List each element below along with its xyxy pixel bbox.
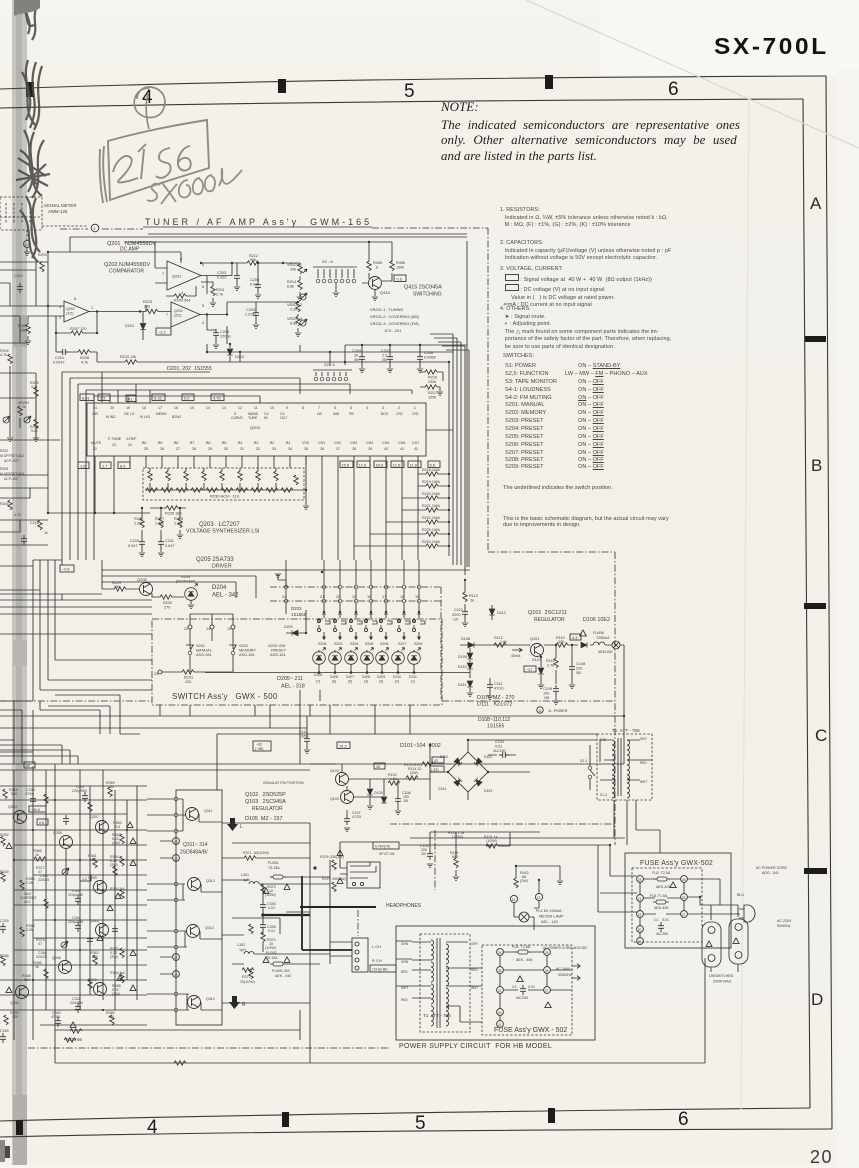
svg-text:22: 22 bbox=[638, 913, 642, 917]
fuse F240K bbox=[593, 642, 605, 645]
svg-text:2200: 2200 bbox=[452, 613, 460, 617]
adjusting point 1 bbox=[300, 293, 307, 300]
C203 bbox=[234, 272, 240, 282]
voltage box 0.6 bbox=[394, 275, 406, 282]
svg-text:220/500: 220/500 bbox=[70, 1001, 83, 1005]
svg-text:S1-2: S1-2 bbox=[600, 793, 607, 797]
Q303 bbox=[14, 811, 27, 824]
svg-text:−62: −62 bbox=[256, 743, 262, 747]
Q101 transistor bbox=[531, 644, 544, 657]
svg-text:28: 28 bbox=[498, 969, 502, 973]
svg-text:R227: R227 bbox=[155, 517, 164, 521]
svg-text:1.7: 1.7 bbox=[102, 464, 107, 469]
IC bottom pin names bbox=[91, 437, 419, 451]
network series chain bbox=[145, 489, 298, 491]
svg-text:AC POWER CORD: AC POWER CORD bbox=[756, 866, 788, 870]
svg-text:4.7k: 4.7k bbox=[14, 513, 21, 517]
svg-text:C109: C109 bbox=[543, 687, 552, 691]
svg-text:B1: B1 bbox=[286, 441, 290, 445]
S2-5 contacts bbox=[314, 377, 318, 381]
svg-text:2.2M: 2.2M bbox=[174, 522, 182, 526]
svg-text:220/25: 220/25 bbox=[38, 878, 49, 882]
svg-text:6.8k: 6.8k bbox=[290, 322, 297, 326]
svg-text:CH6: CH6 bbox=[398, 441, 405, 445]
svg-text:(1): (1) bbox=[411, 680, 415, 684]
svg-text:D110: D110 bbox=[458, 665, 467, 669]
svg-text:C216: C216 bbox=[30, 521, 39, 525]
C210 bbox=[139, 538, 145, 548]
svg-text:RED: RED bbox=[401, 970, 408, 974]
svg-text:!: ! bbox=[584, 632, 585, 636]
svg-text:(2W): (2W) bbox=[410, 771, 418, 775]
R112 bbox=[494, 643, 506, 647]
svg-text:R113: R113 bbox=[469, 594, 478, 598]
preset switch labels bbox=[318, 642, 422, 646]
grid letters right bbox=[810, 194, 821, 214]
Q305 bbox=[60, 836, 73, 849]
Q205 transistor bbox=[140, 583, 153, 596]
NOTE heading bbox=[441, 99, 479, 115]
svg-text:36: 36 bbox=[320, 447, 324, 451]
C110 bbox=[462, 608, 468, 618]
svg-text:47/10: 47/10 bbox=[494, 687, 504, 691]
outlet wires bbox=[687, 897, 738, 972]
svg-text:24: 24 bbox=[93, 406, 97, 410]
svg-text:32: 32 bbox=[256, 447, 260, 451]
svg-text:13: 13 bbox=[222, 406, 226, 410]
C101 bbox=[499, 752, 509, 758]
VR201-3 bbox=[296, 316, 300, 326]
svg-text:C205: C205 bbox=[220, 330, 229, 334]
right fuse assy box bbox=[625, 853, 731, 948]
circled pin 17 bbox=[173, 954, 180, 961]
svg-text:B9: B9 bbox=[158, 441, 162, 445]
svg-text:Q304: Q304 bbox=[10, 1001, 19, 1005]
D108 bbox=[468, 642, 474, 648]
svg-text:AEL - 342: AEL - 342 bbox=[212, 593, 239, 599]
svg-text:R375: R375 bbox=[322, 877, 331, 881]
svg-text:S202: S202 bbox=[239, 644, 248, 648]
grounds regulator bbox=[553, 701, 559, 704]
svg-text:0.0047: 0.0047 bbox=[53, 361, 65, 365]
more amp components bbox=[44, 794, 48, 804]
svg-text:2: 2 bbox=[398, 406, 400, 410]
paper fold vertical bbox=[741, 95, 749, 1110]
svg-text:R111: R111 bbox=[546, 659, 555, 663]
svg-text:27: 27 bbox=[176, 447, 180, 451]
svg-text:B8: B8 bbox=[174, 441, 178, 445]
svg-text:CURVE: CURVE bbox=[231, 416, 244, 420]
svg-text:220μ/500: 220μ/500 bbox=[68, 893, 83, 897]
svg-text:5.6k: 5.6k bbox=[31, 429, 38, 433]
voltage box 14.3 bbox=[337, 742, 350, 749]
R235 bbox=[166, 506, 178, 510]
svg-text:220k: 220k bbox=[428, 380, 436, 384]
svg-text:SP AT 1W: SP AT 1W bbox=[379, 852, 395, 856]
svg-text:90k: 90k bbox=[250, 258, 256, 262]
svg-text:1.5M: 1.5M bbox=[155, 522, 163, 526]
outer box bbox=[396, 926, 595, 1040]
pencil circle around grid 4 bbox=[134, 87, 165, 129]
svg-text:D201: D201 bbox=[125, 324, 134, 328]
svg-text:28: 28 bbox=[192, 447, 196, 451]
svg-text:0.76V(79): 0.76V(79) bbox=[375, 845, 390, 849]
svg-text:MW: MW bbox=[333, 412, 340, 416]
svg-text:35: 35 bbox=[304, 447, 308, 451]
svg-text:21: 21 bbox=[638, 897, 642, 901]
svg-text:1k: 1k bbox=[22, 405, 26, 409]
svg-text:REGULATOR: REGULATOR bbox=[252, 806, 283, 812]
regulator wires bbox=[310, 764, 430, 815]
svg-text:0.01: 0.01 bbox=[528, 985, 535, 989]
svg-text:15.8: 15.8 bbox=[342, 463, 350, 468]
svg-text:JCX - 201: JCX - 201 bbox=[384, 328, 401, 333]
svg-text:20: 20 bbox=[110, 406, 114, 410]
svg-text:PRESET: PRESET bbox=[271, 649, 287, 653]
LED D210 bbox=[392, 648, 405, 665]
svg-text:S1-1: S1-1 bbox=[580, 759, 588, 763]
node 22 bbox=[188, 625, 192, 629]
D109b bbox=[381, 797, 387, 803]
wire to comparator bbox=[201, 263, 246, 276]
C211 bbox=[158, 538, 164, 548]
C207 bbox=[387, 353, 393, 363]
svg-text:CH2: CH2 bbox=[334, 441, 341, 445]
wires around Q201 bbox=[155, 242, 232, 294]
voltage box -33 bbox=[430, 766, 444, 772]
svg-text:1k: 1k bbox=[44, 531, 48, 535]
LED D206 bbox=[329, 648, 342, 665]
svg-text:Q307: Q307 bbox=[90, 815, 99, 819]
svg-text:B3: B3 bbox=[254, 441, 258, 445]
svg-text:VOLTAGE SYNTHESIZER LSI: VOLTAGE SYNTHESIZER LSI bbox=[186, 529, 260, 535]
svg-text:FU301,302: FU301,302 bbox=[272, 969, 290, 973]
svg-text:(2): (2) bbox=[395, 680, 399, 684]
svg-text:0.0: 0.0 bbox=[184, 396, 190, 401]
C208 bbox=[417, 353, 423, 363]
svg-text:D105: D105 bbox=[374, 791, 383, 795]
frame inner right bbox=[803, 99, 810, 1108]
svg-text:R235 180: R235 180 bbox=[165, 512, 181, 516]
resistor network dashed box bbox=[143, 468, 304, 500]
voltage box -27 bbox=[524, 666, 536, 672]
VR201-2 bbox=[296, 302, 300, 312]
svg-text:MEMORY: MEMORY bbox=[239, 649, 256, 653]
bus node circles row2 bbox=[284, 599, 421, 603]
svg-text:C108: C108 bbox=[576, 662, 585, 666]
svg-text:PB: PB bbox=[349, 412, 354, 416]
svg-text:S204: S204 bbox=[350, 642, 358, 646]
C111 bbox=[487, 681, 493, 691]
svg-text:1: 1 bbox=[414, 406, 416, 410]
node 10 bbox=[24, 241, 31, 248]
svg-text:D108~110,112: D108~110,112 bbox=[478, 717, 510, 723]
HB wires bbox=[500, 952, 572, 1021]
D111 bbox=[467, 681, 473, 687]
svg-text:FU2 T2.5A: FU2 T2.5A bbox=[652, 871, 671, 875]
svg-text:R205: R205 bbox=[0, 467, 8, 471]
meter lamp PL1 bbox=[519, 912, 529, 922]
AC arrows HB bbox=[572, 964, 580, 981]
svg-text:41: 41 bbox=[128, 397, 132, 402]
long rails mid page bbox=[0, 700, 615, 702]
SP box bbox=[373, 842, 399, 849]
voltage box 8.6 bbox=[118, 462, 130, 469]
svg-text:50/60Hz: 50/60Hz bbox=[558, 973, 572, 977]
svg-text:(POINTER): (POINTER) bbox=[176, 580, 196, 584]
voltage box 42 bbox=[432, 757, 444, 763]
svg-text:8.18: 8.18 bbox=[154, 396, 162, 401]
ground top bbox=[278, 574, 286, 587]
svg-text:5: 5 bbox=[202, 263, 204, 267]
svg-text:SWITCHING: SWITCHING bbox=[413, 292, 442, 298]
svg-text:Q314: Q314 bbox=[205, 926, 214, 930]
signal arrow L bbox=[227, 818, 238, 831]
svg-text:10: 10 bbox=[25, 243, 29, 247]
svg-text:(5): (5) bbox=[348, 680, 352, 684]
svg-text:GRY: GRY bbox=[640, 737, 648, 741]
transformer connect wires bbox=[412, 942, 482, 1022]
verticals right of IC bbox=[426, 334, 469, 575]
svg-text:R228: R228 bbox=[174, 517, 183, 521]
svg-text:25: 25 bbox=[545, 951, 549, 955]
svg-text:CH4: CH4 bbox=[366, 441, 373, 445]
tick bottom left bbox=[16, 1120, 23, 1135]
svg-text:R376: R376 bbox=[320, 855, 329, 859]
inner dashed box right bbox=[632, 868, 702, 942]
svg-text:13.8: 13.8 bbox=[393, 463, 401, 468]
svg-text:L302: L302 bbox=[237, 943, 245, 947]
svg-text:22k: 22k bbox=[144, 305, 150, 309]
svg-text:5.5: 5.5 bbox=[100, 396, 105, 401]
svg-text:AEK - 405: AEK - 405 bbox=[516, 958, 532, 962]
LED D211 bbox=[408, 648, 421, 665]
svg-text:4: 4 bbox=[366, 406, 368, 410]
svg-text:AWM-126: AWM-126 bbox=[48, 209, 68, 214]
svg-text:R244: R244 bbox=[0, 502, 9, 506]
S2-6 contacts bbox=[316, 279, 320, 283]
D204 LED pointer bbox=[185, 584, 198, 601]
svg-text:M OFFSET ADJ: M OFFSET ADJ bbox=[0, 454, 25, 458]
secondary coils bbox=[446, 944, 449, 964]
svg-text:1CH(2.8k): 1CH(2.8k) bbox=[372, 968, 387, 972]
svg-text:R220 100k: R220 100k bbox=[422, 492, 440, 496]
voltage box -62 bbox=[253, 741, 271, 751]
svg-text:18: 18 bbox=[174, 973, 178, 977]
adjusting point left 2 bbox=[24, 416, 31, 423]
svg-text:15: 15 bbox=[190, 406, 194, 410]
svg-text:WHT: WHT bbox=[471, 986, 478, 990]
svg-text:D111 KZL072: D111 KZL072 bbox=[477, 702, 512, 708]
amp to headphone wires bbox=[222, 823, 330, 1003]
svg-text:18.8: 18.8 bbox=[376, 463, 384, 468]
svg-text:DC AMP: DC AMP bbox=[120, 247, 140, 253]
S202 switch bbox=[229, 641, 237, 651]
svg-text:0.0068: 0.0068 bbox=[424, 356, 436, 360]
svg-text:R230 ACN - 119: R230 ACN - 119 bbox=[210, 494, 240, 499]
svg-text:220: 220 bbox=[576, 667, 582, 671]
main wire through regulator bbox=[460, 644, 593, 646]
adjusting point 2 bbox=[300, 319, 307, 326]
circled pin 16 bbox=[173, 855, 180, 862]
svg-text:Q306: Q306 bbox=[52, 956, 61, 960]
svg-text:Q103 2SC945A: Q103 2SC945A bbox=[245, 799, 286, 805]
svg-text:T3.15A: T3.15A bbox=[268, 866, 280, 870]
voltage box 1.6 bbox=[78, 462, 89, 469]
svg-text:Q310: Q310 bbox=[90, 919, 99, 923]
preset switch contacts S203-S209 bbox=[317, 610, 425, 640]
svg-text:D207: D207 bbox=[346, 675, 354, 679]
node 9 bbox=[91, 224, 99, 232]
svg-text:200W MAX.: 200W MAX. bbox=[713, 980, 732, 984]
svg-text:FU1 T1.6A: FU1 T1.6A bbox=[650, 894, 668, 898]
signal meter inner detail bbox=[0, 203, 42, 224]
svg-text:R211: R211 bbox=[216, 288, 225, 292]
T1 core bbox=[618, 738, 621, 796]
tick bottom mid2 bbox=[548, 1108, 555, 1123]
svg-text:5: 5 bbox=[350, 406, 352, 410]
svg-text:25: 25 bbox=[144, 447, 148, 451]
svg-text:R208: R208 bbox=[80, 356, 89, 360]
scanner band left bbox=[12, 0, 27, 1165]
svg-text:220/25: 220/25 bbox=[36, 955, 47, 959]
R202 bbox=[26, 324, 30, 334]
lamp wires bbox=[514, 866, 560, 930]
svg-text:R218 100k: R218 100k bbox=[422, 468, 440, 472]
svg-text:S2 - 6: S2 - 6 bbox=[322, 259, 333, 264]
svg-text:Q101 2SC1211: Q101 2SC1211 bbox=[528, 610, 567, 616]
R211 bbox=[211, 286, 215, 296]
bundle verticals bbox=[0, 560, 152, 701]
voltage box 4.3 bbox=[570, 634, 581, 640]
svg-text:270: 270 bbox=[164, 606, 170, 610]
svg-text:21: 21 bbox=[638, 940, 642, 944]
T1 secondary coil bbox=[627, 740, 630, 760]
node col right bbox=[681, 876, 688, 883]
svg-text:C110: C110 bbox=[454, 608, 463, 612]
svg-text:D106 10E2: D106 10E2 bbox=[583, 617, 610, 623]
extra amp wires bbox=[0, 690, 310, 1025]
svg-text:1S1555: 1S1555 bbox=[487, 724, 504, 730]
svg-text:R209 564: R209 564 bbox=[174, 299, 190, 303]
svg-text:C339: C339 bbox=[0, 919, 9, 923]
svg-text:23: 23 bbox=[154, 672, 158, 676]
T1 dashed box bbox=[597, 734, 652, 800]
svg-text:0.6: 0.6 bbox=[39, 821, 44, 825]
svg-text:CR1: CR1 bbox=[412, 412, 419, 416]
svg-text:560: 560 bbox=[24, 978, 30, 982]
svg-text:B2: B2 bbox=[270, 441, 274, 445]
LED D207 bbox=[345, 648, 358, 665]
svg-text:VR201-1 : TUNING: VR201-1 : TUNING bbox=[370, 307, 403, 312]
svg-text:24: 24 bbox=[498, 951, 502, 955]
svg-text:22: 22 bbox=[93, 447, 97, 451]
svg-text:390: 390 bbox=[558, 640, 564, 644]
svg-text:VR201-1: VR201-1 bbox=[287, 263, 302, 267]
L/R CH connector bbox=[352, 938, 368, 972]
svg-text:L CH: L CH bbox=[372, 944, 381, 949]
svg-text:D205~ 211: D205~ 211 bbox=[277, 676, 303, 682]
svg-text:R219 100k: R219 100k bbox=[422, 480, 440, 484]
svg-text:26: 26 bbox=[545, 969, 549, 973]
svg-text:B7: B7 bbox=[190, 441, 194, 445]
R228 bbox=[178, 518, 182, 528]
svg-text:D107 MZ - 270: D107 MZ - 270 bbox=[477, 695, 514, 701]
svg-text:9: 9 bbox=[286, 406, 288, 410]
svg-text:C1: C1 bbox=[654, 918, 659, 922]
svg-text:/50: /50 bbox=[576, 671, 581, 675]
svg-text:CH7: CH7 bbox=[412, 441, 419, 445]
svg-text:(1/2): (1/2) bbox=[66, 312, 73, 316]
svg-text:R207 120: R207 120 bbox=[70, 327, 86, 331]
svg-text:M OFFSET ADJ: M OFFSET ADJ bbox=[0, 472, 25, 476]
svg-text:D111: D111 bbox=[458, 683, 467, 687]
svg-text:T1 ATT - 706: T1 ATT - 706 bbox=[423, 1013, 451, 1018]
svg-text:ACP–007: ACP–007 bbox=[4, 477, 19, 481]
svg-text:26: 26 bbox=[160, 447, 164, 451]
svg-text:C1: C1 bbox=[512, 985, 517, 989]
svg-text:47/25: 47/25 bbox=[352, 815, 361, 819]
R216 bbox=[425, 370, 437, 374]
svg-text:4: 4 bbox=[181, 291, 183, 295]
LED D209 bbox=[376, 648, 389, 665]
pencil box 2156 bbox=[100, 120, 209, 203]
signal arrow R bbox=[229, 996, 240, 1009]
tuner assy dash-dot border right bbox=[487, 228, 489, 552]
svg-text:C101: C101 bbox=[495, 740, 504, 744]
svg-text:Q415: Q415 bbox=[380, 290, 391, 295]
svg-text:D109: D109 bbox=[458, 655, 467, 659]
svg-text:LW: LW bbox=[317, 412, 323, 416]
svg-text:20: 20 bbox=[638, 928, 642, 932]
svg-text:VR201-3 : COVERING (FM): VR201-3 : COVERING (FM) bbox=[370, 321, 419, 326]
svg-text:CR1: CR1 bbox=[318, 441, 325, 445]
svg-text:R217: R217 bbox=[428, 391, 437, 395]
node col left bbox=[637, 876, 644, 883]
svg-text:R224 100k: R224 100k bbox=[422, 540, 440, 544]
svg-text:OUT: OUT bbox=[280, 416, 287, 420]
svg-text:R365 5.6: R365 5.6 bbox=[110, 887, 125, 891]
svg-text:1.8k: 1.8k bbox=[500, 640, 507, 644]
svg-text:60(1/2W): 60(1/2W) bbox=[254, 851, 269, 855]
svg-text:8.8: 8.8 bbox=[430, 463, 435, 468]
svg-text:BLU: BLU bbox=[737, 893, 744, 897]
svg-text:470/6: 470/6 bbox=[51, 1015, 60, 1019]
svg-text:ASG-161: ASG-161 bbox=[196, 653, 212, 657]
svg-text:0.01: 0.01 bbox=[268, 906, 275, 910]
svg-text:33k: 33k bbox=[114, 585, 120, 589]
svg-text:AEL - 140: AEL - 140 bbox=[541, 920, 558, 924]
svg-text:7: 7 bbox=[318, 406, 320, 410]
Q312 bbox=[188, 996, 201, 1009]
svg-text:(2/2): (2/2) bbox=[174, 314, 181, 318]
grid numbers top bbox=[142, 87, 153, 109]
node 11 bbox=[537, 707, 543, 713]
svg-text:10: 10 bbox=[354, 354, 358, 358]
amp vertical buses bbox=[14, 764, 217, 1063]
svg-text:Q205 2SA733: Q205 2SA733 bbox=[196, 557, 234, 563]
svg-text:V30: V30 bbox=[92, 412, 98, 416]
dark blob top-left corner bbox=[14, 0, 40, 16]
svg-text:ASG-161: ASG-161 bbox=[270, 653, 286, 657]
R111 bbox=[554, 658, 558, 668]
svg-text:8: 8 bbox=[302, 406, 304, 410]
R113 bbox=[463, 592, 467, 602]
svg-text:200mA AT FM POSITION: 200mA AT FM POSITION bbox=[263, 781, 304, 785]
S2-6 ground bbox=[335, 283, 337, 292]
svg-text:4.3: 4.3 bbox=[572, 636, 577, 640]
NOTE paragraph bbox=[441, 117, 740, 163]
